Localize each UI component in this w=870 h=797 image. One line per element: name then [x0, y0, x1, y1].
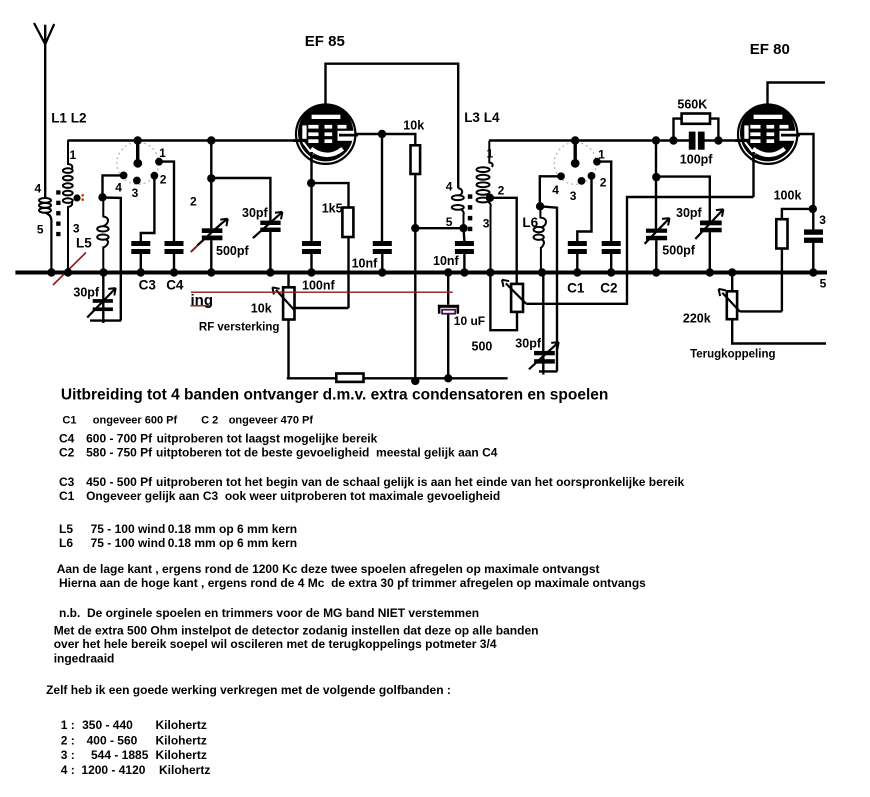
svg-text:2: 2 — [160, 172, 167, 186]
svg-text:1: 1 — [598, 148, 605, 162]
svg-text:n.b. De orginele spoelen en t: n.b. De orginele spoelen en trimmers voo… — [59, 606, 479, 620]
switch S2 contacts — [571, 159, 580, 168]
wire 10nf cap 2 — [462, 228, 465, 270]
capacitor 500pf variable right — [646, 229, 667, 241]
wire L5 node to 30pf trimmer — [103, 198, 121, 321]
wire EF80 screen to node — [798, 134, 814, 209]
svg-text:Hierna aan de hoge kant , erge: Hierna aan de hoge kant , ergens rond de… — [59, 576, 646, 590]
svg-text:C3450 - 500 Pfuitproberen tot: C3450 - 500 Pfuitproberen tot het begin … — [59, 475, 684, 489]
svg-text:5: 5 — [820, 276, 827, 290]
wire 500pf left branch — [210, 141, 212, 271]
wire 10k bottom to L3 pin5 — [415, 227, 463, 229]
potentiometer 220k — [727, 291, 737, 319]
svg-text:500: 500 — [472, 340, 493, 354]
tube EF80 — [735, 104, 800, 164]
svg-text:500pf: 500pf — [662, 244, 695, 258]
svg-text:220k: 220k — [683, 312, 711, 326]
svg-text:L5: L5 — [76, 236, 92, 251]
wire EF80 cathode — [752, 162, 754, 197]
capacitor 10nf 1 — [373, 241, 392, 254]
svg-text:ingedraaid: ingedraaid — [54, 651, 115, 665]
svg-text:RF versterking: RF versterking — [199, 322, 280, 334]
wire EF85 screen to 10k — [356, 134, 415, 145]
wire 500 pot wiper to feedback — [526, 197, 753, 304]
capacitor 30pf trimmer bottom right — [534, 351, 555, 364]
potentiometer 10k RF versterking — [283, 287, 294, 319]
wire 10k pot wiper to 1k5 — [295, 307, 349, 309]
wire L4 tap to 500 pot — [490, 198, 517, 284]
inductor L1 — [39, 198, 51, 271]
svg-text:1: 1 — [159, 146, 166, 160]
svg-text:100k: 100k — [774, 188, 802, 202]
svg-text:2 :400 - 560Kilohertz: 2 :400 - 560Kilohertz — [61, 734, 207, 748]
svg-text:4: 4 — [115, 180, 122, 194]
wire grid EF80 — [489, 139, 738, 141]
svg-text:3: 3 — [483, 217, 490, 231]
wire L6 node to 30pf trimmer right — [540, 206, 557, 371]
svg-text:EF 85: EF 85 — [305, 33, 345, 50]
svg-text:5: 5 — [446, 215, 453, 229]
svg-text:4: 4 — [35, 182, 42, 196]
resistor 1k5 — [342, 208, 353, 238]
inductor L5 — [97, 197, 108, 270]
svg-text:5: 5 — [37, 222, 44, 236]
svg-text:Aan de lage kant , ergens rond: Aan de lage kant , ergens rond de 1200 K… — [57, 562, 600, 576]
inductor L4 — [477, 141, 493, 271]
svg-text:3 :544 - 1885Kilohertz: 3 :544 - 1885Kilohertz — [61, 748, 207, 762]
resistor 10k plate load — [411, 145, 421, 174]
svg-text:10nf: 10nf — [352, 257, 379, 271]
wire S1 contact4 to L5 node — [103, 175, 124, 197]
svg-text:4: 4 — [552, 183, 559, 197]
capacitor C2 — [602, 241, 621, 254]
svg-text:500pf: 500pf — [216, 244, 249, 258]
svg-text:10nf: 10nf — [433, 254, 460, 268]
resistor 560K — [682, 114, 710, 124]
wire EF80 plate — [768, 83, 826, 104]
svg-text:30pf: 30pf — [515, 336, 542, 350]
wire S2 contact1 to C2 — [597, 162, 611, 241]
svg-text:30pf: 30pf — [242, 206, 269, 220]
svg-text:100nf: 100nf — [302, 278, 335, 292]
capacitor 10nf 2 — [455, 241, 474, 254]
svg-text:C1ongeveer 600 PfC 2ongeveer 4: C1ongeveer 600 PfC 2ongeveer 470 Pf — [62, 414, 313, 426]
svg-text:C1: C1 — [567, 281, 585, 296]
svg-text:560K: 560K — [677, 98, 707, 112]
capacitor 30pf trimmer bottom left — [93, 299, 113, 311]
resistor 100k — [776, 219, 787, 248]
svg-text:C4600 - 700 Pfuitproberen tot: C4600 - 700 Pfuitproberen tot laagst mog… — [59, 432, 378, 446]
wire grid EF85 — [68, 139, 297, 141]
svg-text:1: 1 — [70, 148, 77, 162]
svg-text:Uitbreiding tot 4 banden ontva: Uitbreiding tot 4 banden ontvanger d.m.v… — [61, 387, 608, 404]
svg-text:over het hele bereik soepel wi: over het hele bereik soepel wil oscilere… — [54, 637, 497, 651]
wire ground bus — [15, 271, 827, 275]
svg-text:L575 - 100 wind0.18 mm op 6 mm: L575 - 100 wind0.18 mm op 6 mm kern — [59, 522, 297, 536]
inductor L6 — [534, 206, 546, 270]
inductor L2 — [63, 141, 73, 271]
switch S1 stem — [136, 141, 139, 164]
capacitor 100pf — [689, 132, 705, 150]
capacitor C4 — [165, 241, 184, 254]
capacitor 100nf — [302, 241, 321, 254]
svg-text:3: 3 — [132, 186, 139, 200]
capacitor 500pf variable left — [202, 228, 223, 240]
svg-text:2: 2 — [190, 195, 197, 209]
resistor horizontal — [336, 374, 363, 382]
switch S1 rotor circle — [117, 142, 159, 184]
svg-text:1 :350 - 440Kilohertz: 1 :350 - 440Kilohertz — [61, 718, 207, 732]
svg-text:3: 3 — [570, 189, 577, 203]
svg-text:L3 L4: L3 L4 — [464, 110, 500, 125]
svg-text:C4: C4 — [166, 278, 184, 293]
svg-text:30pf: 30pf — [676, 206, 703, 220]
capacitor C3 — [131, 241, 150, 254]
svg-text:2: 2 — [600, 176, 607, 190]
core L1 L2 dashed — [56, 190, 60, 236]
capacitor C1 — [568, 241, 587, 254]
svg-text:30pf: 30pf — [73, 285, 100, 299]
svg-text:1: 1 — [487, 147, 494, 161]
wire EF85 plate to L3 — [326, 64, 459, 189]
wire B rail bottom — [287, 377, 508, 379]
tube EF85 — [293, 104, 358, 164]
capacitor 30pf trimmer right top — [700, 221, 722, 233]
wire S2 contact4 to L6 node — [540, 176, 561, 206]
red artifacts — [53, 194, 453, 306]
text block — [46, 387, 684, 777]
wire 220k wiper to 100k — [740, 310, 782, 312]
svg-text:3: 3 — [819, 213, 826, 227]
svg-text:L6: L6 — [522, 215, 538, 230]
svg-text:L675 - 100 wind0.18 mm op 6 mm: L675 - 100 wind0.18 mm op 6 mm kern — [59, 536, 297, 550]
wire S1 contact2 to C3 — [141, 176, 155, 241]
svg-text:C3: C3 — [139, 278, 157, 293]
svg-text:L1 L2: L1 L2 — [51, 111, 86, 126]
wire 30pf left branch — [211, 178, 270, 271]
capacitor 30pf trimmer left — [260, 221, 280, 232]
wire 10nf cap 1 — [381, 134, 384, 271]
svg-text:10k: 10k — [251, 302, 272, 316]
svg-text:10 uF: 10 uF — [454, 314, 485, 328]
switch S2 stem — [574, 141, 577, 164]
svg-text:4 :1200 - 4120Kilohertz: 4 :1200 - 4120Kilohertz — [61, 763, 211, 777]
svg-text:C2580 - 750 Pfuitptoberen tot: C2580 - 750 Pfuitptoberen tot de beste g… — [59, 446, 498, 460]
wire 10k node down to B rail — [414, 228, 416, 381]
antenna — [34, 23, 54, 199]
svg-text:Terugkoppeling: Terugkoppeling — [690, 349, 775, 361]
wire S2 contact2 to C1 — [577, 176, 591, 241]
svg-text:ing: ing — [191, 292, 214, 309]
wire node to 100k — [782, 209, 813, 219]
switch S2 rotor circle — [554, 142, 596, 184]
svg-text:Zelf heb ik een goede werking: Zelf heb ik een goede werking verkregen … — [46, 683, 451, 697]
wire EF85 cathode node — [310, 160, 312, 271]
svg-text:C1Ongeveer gelijk aan C3 ook: C1Ongeveer gelijk aan C3 ook weer uitpro… — [59, 489, 500, 503]
svg-text:10k: 10k — [403, 119, 424, 133]
svg-text:EF 80: EF 80 — [750, 41, 790, 58]
capacitor 10uF electrolytic — [438, 273, 459, 379]
svg-text:C2: C2 — [600, 281, 617, 296]
wire S1 contact1 to C4 — [159, 162, 174, 241]
svg-text:4: 4 — [446, 179, 453, 193]
svg-text:1k5: 1k5 — [322, 202, 343, 216]
core L3 L4 dashed — [468, 194, 473, 231]
svg-text:Met de extra 500 Ohm instelpot: Met de extra 500 Ohm instelpot de detect… — [54, 623, 539, 637]
capacitor 3 (30pf) — [804, 229, 823, 243]
inductor L3 — [452, 188, 464, 228]
potentiometer 500 — [511, 284, 523, 312]
svg-text:2: 2 — [498, 183, 505, 197]
svg-text:3: 3 — [73, 222, 80, 236]
svg-text:100pf: 100pf — [680, 152, 713, 166]
switch S1 contacts — [133, 159, 142, 168]
